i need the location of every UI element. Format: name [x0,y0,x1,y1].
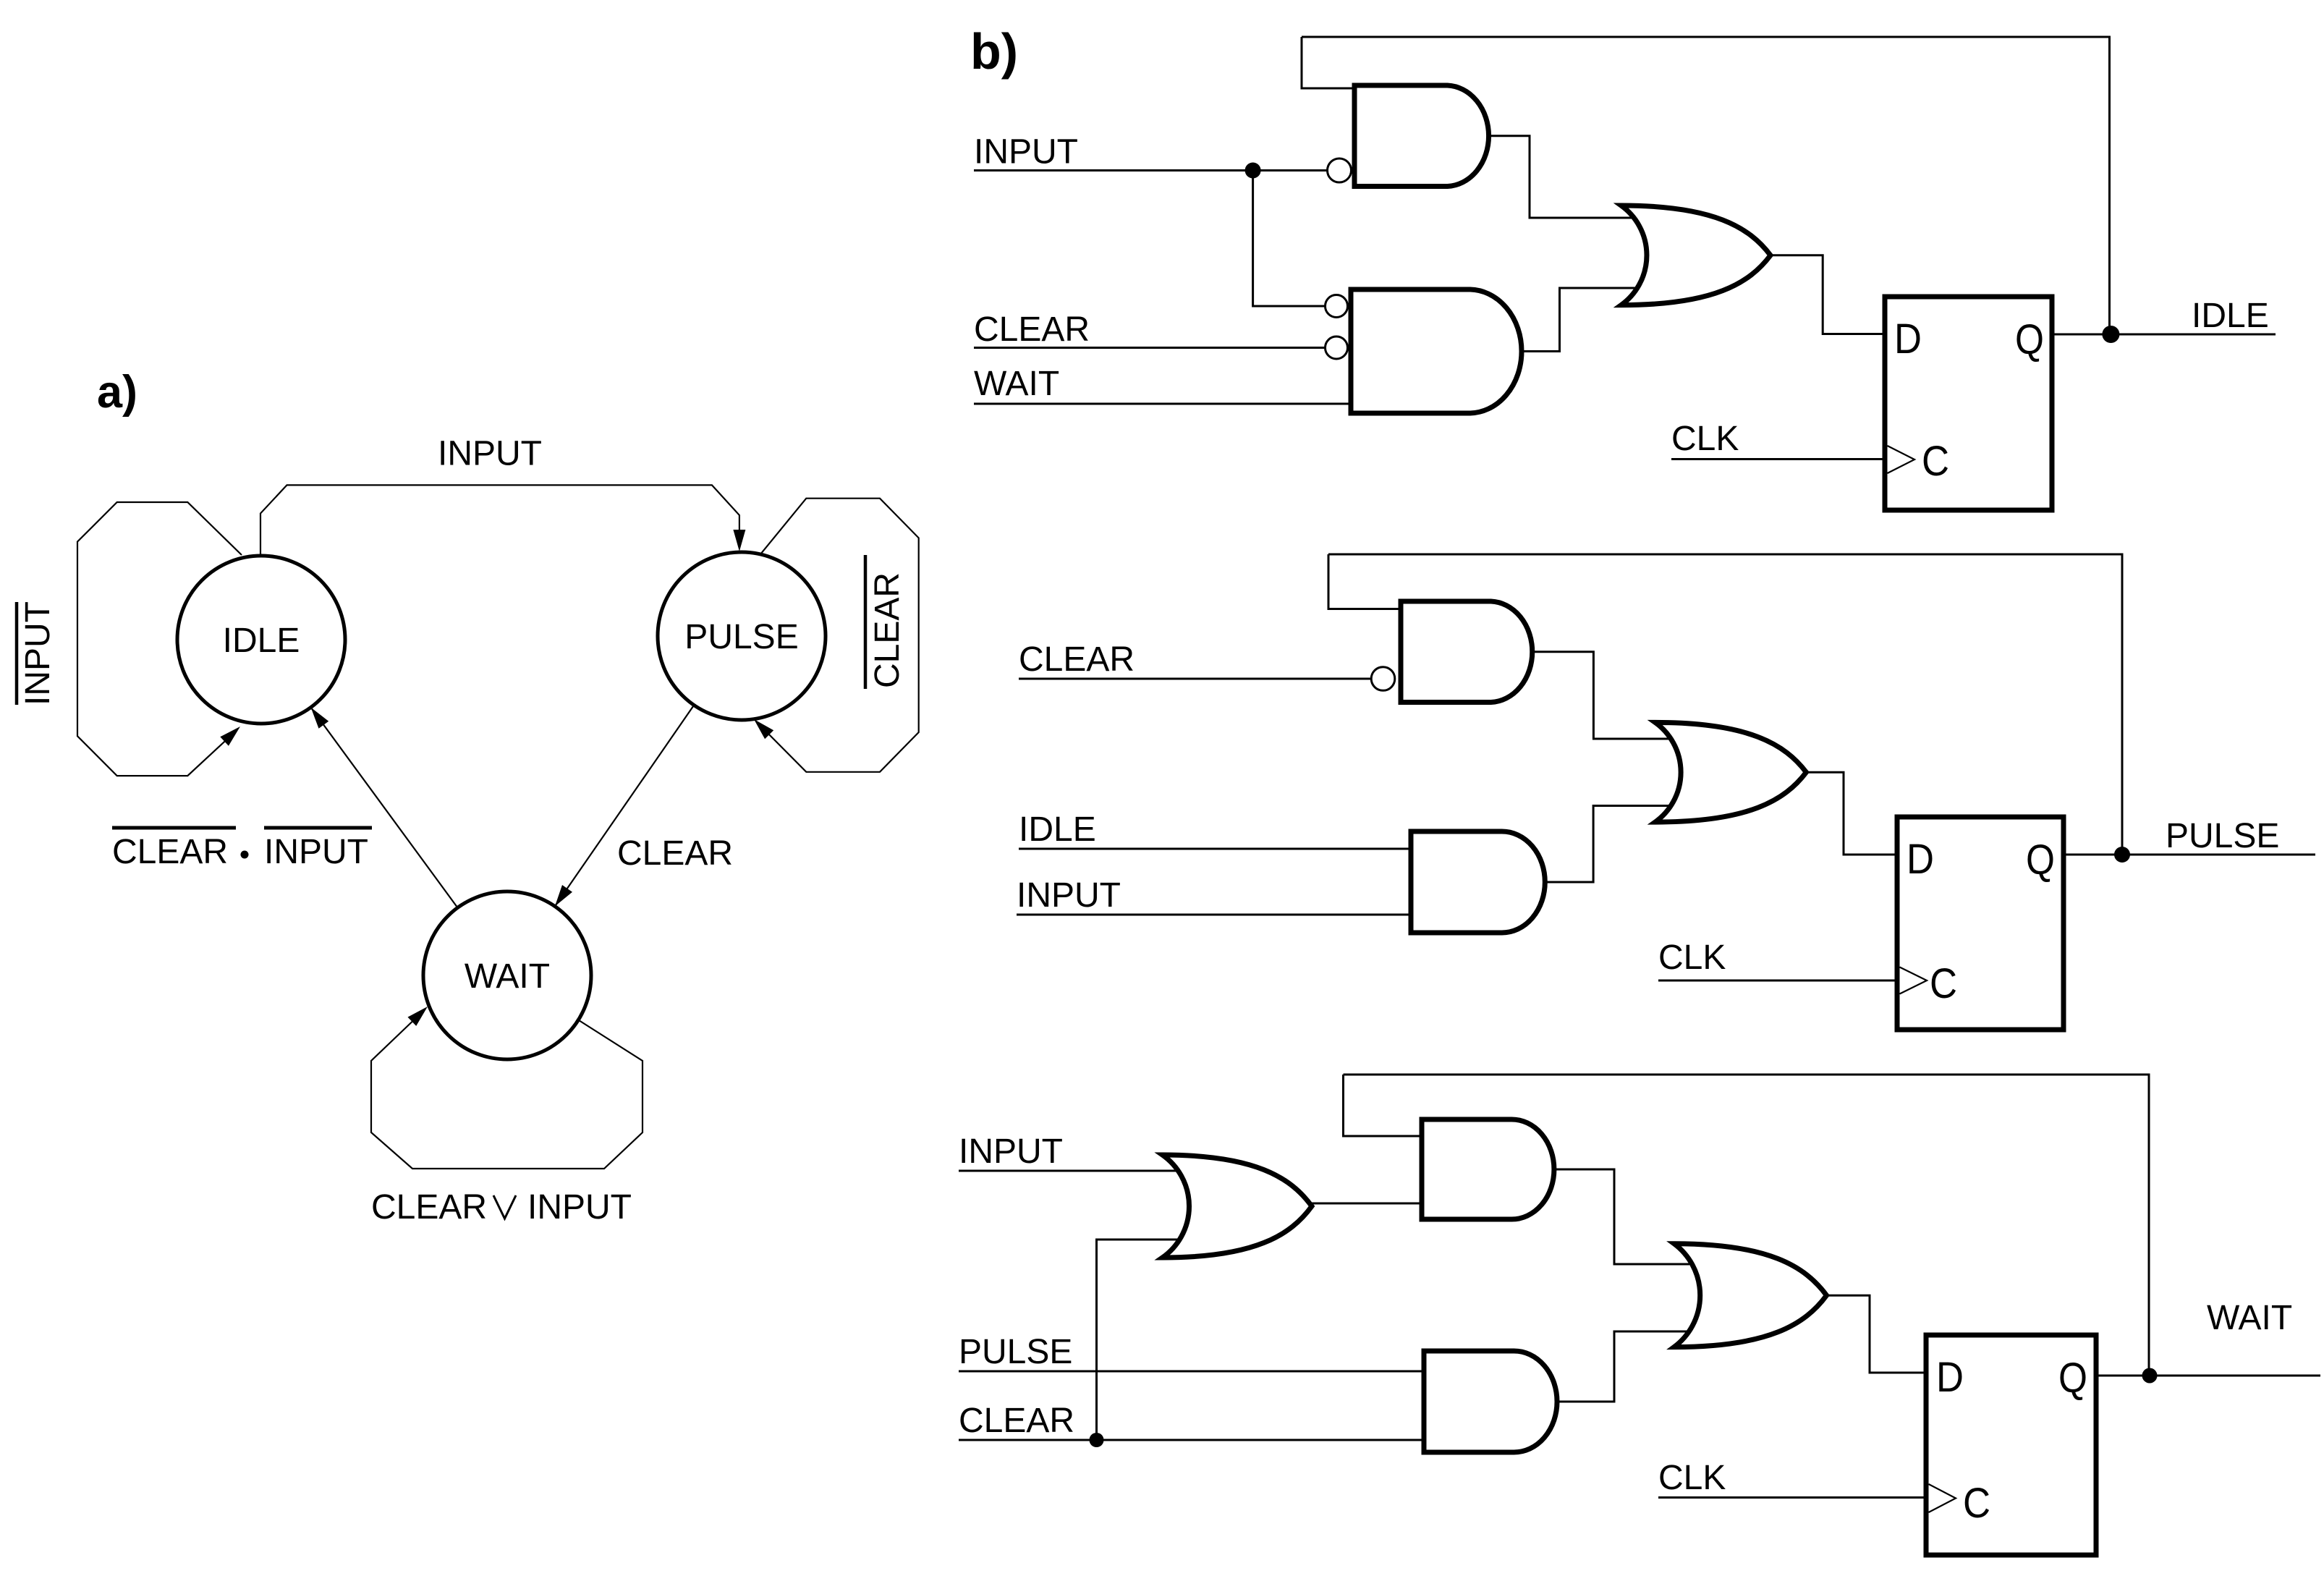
svg-text:b): b) [970,23,1018,80]
svg-text:C: C [1930,960,1957,1007]
svg-text:D: D [1894,315,1922,363]
svg-text:WAIT: WAIT [465,957,550,996]
svg-text:IDLE: IDLE [2192,297,2269,335]
svg-text:INPUT: INPUT [1017,876,1121,915]
svg-text:CLEAR: CLEAR [617,834,733,873]
svg-text:WAIT: WAIT [2207,1299,2292,1337]
svg-text:CLEAR: CLEAR [868,572,907,688]
svg-text:INPUT: INPUT [19,601,57,706]
svg-text:C: C [1922,438,1949,485]
svg-text:CLK: CLK [1671,420,1739,458]
svg-text:IDLE: IDLE [223,622,300,660]
svg-text:PULSE: PULSE [959,1333,1072,1371]
svg-text:INPUT: INPUT [438,435,542,473]
svg-text:CLEAR: CLEAR [959,1402,1074,1440]
svg-text:INPUT: INPUT [974,133,1078,171]
svg-text:PULSE: PULSE [2166,817,2279,855]
svg-text:D: D [1907,836,1934,883]
svg-text:CLEAR: CLEAR [112,833,228,871]
svg-text:a): a) [97,367,137,418]
svg-text:CLK: CLK [1658,939,1726,977]
svg-text:CLEAR: CLEAR [1019,640,1135,679]
svg-text:Q: Q [2015,316,2044,363]
svg-text:PULSE: PULSE [684,618,798,656]
svg-text:CLK: CLK [1658,1459,1726,1497]
svg-text:CLEAR: CLEAR [371,1188,487,1227]
svg-text:Q: Q [2026,836,2055,884]
svg-text:IDLE: IDLE [1019,810,1096,849]
svg-text:INPUT: INPUT [527,1188,632,1227]
svg-text:INPUT: INPUT [264,833,368,871]
svg-text:Q: Q [2058,1355,2087,1402]
svg-text:D: D [1936,1354,1964,1401]
svg-text:INPUT: INPUT [959,1132,1063,1171]
svg-text:C: C [1963,1480,1990,1527]
svg-text:WAIT: WAIT [974,365,1059,403]
svg-text:CLEAR: CLEAR [974,310,1090,349]
